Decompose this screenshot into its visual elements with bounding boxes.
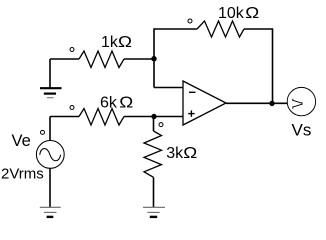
svg-text:Ω: Ω (118, 34, 132, 51)
svg-text:Ω: Ω (119, 95, 133, 112)
svg-text:Vs: Vs (292, 121, 312, 140)
svg-text:Ve: Ve (12, 132, 31, 150)
svg-text:Ω: Ω (245, 5, 259, 22)
svg-text:1k: 1k (101, 34, 119, 51)
svg-text:10k: 10k (218, 5, 245, 22)
svg-text:2Vrms: 2Vrms (1, 166, 44, 183)
svg-text:3k: 3k (166, 145, 184, 162)
svg-text:Ω: Ω (183, 145, 197, 162)
svg-text:6k: 6k (100, 95, 118, 112)
